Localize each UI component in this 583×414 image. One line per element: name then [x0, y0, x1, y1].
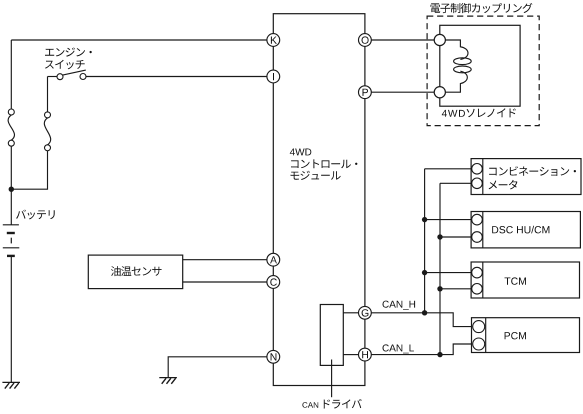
terminal G	[359, 306, 372, 319]
fuse F2	[45, 112, 51, 118]
wire terminal P to coupling	[365, 91, 440, 93]
junction TCM CAN_L	[437, 286, 442, 291]
coupling terminal lower	[434, 87, 445, 98]
engine switch SW1	[48, 76, 58, 78]
wire CAN_L from H to PCM	[365, 344, 472, 355]
wire switch to terminal I	[86, 76, 273, 78]
label CAN_L	[383, 344, 414, 353]
wire sensor to terminal A	[183, 259, 274, 261]
CAN driver box	[320, 305, 343, 366]
wire CAN_H from G to PCM	[365, 313, 472, 327]
PCM terminal upper	[473, 321, 485, 333]
CAN_H bus	[424, 169, 426, 313]
wire CAN driver to H	[343, 354, 358, 356]
ground battery	[2, 381, 20, 383]
oil temperature sensor box	[88, 255, 182, 289]
wire bus to meter upper	[425, 168, 472, 170]
terminal P	[359, 86, 372, 99]
meter terminal upper	[472, 164, 483, 175]
wire battery feed to terminal K	[11, 39, 273, 41]
electronically controlled coupling dashed box	[427, 16, 539, 126]
TCM box	[471, 262, 579, 298]
DSC terminal lower	[472, 232, 483, 243]
junction TCM CAN_H	[422, 270, 427, 275]
wire terminal O to coupling	[365, 39, 440, 41]
label electronic control coupling	[431, 3, 533, 13]
wire battery positive riser	[10, 40, 12, 109]
label battery	[16, 210, 55, 220]
label PCM	[505, 332, 526, 339]
PCM box	[472, 318, 580, 353]
4WD solenoid box	[440, 25, 520, 106]
terminal O	[359, 34, 372, 47]
wire terminal N to ground	[168, 357, 273, 378]
label TCM	[505, 277, 527, 284]
DSC terminal upper	[472, 214, 483, 225]
TCM terminal lower	[472, 284, 483, 295]
label 4WD control module	[290, 149, 312, 156]
solenoid coil L1	[445, 40, 468, 92]
DSC HU/CM box	[471, 212, 580, 248]
CAN driver leader line	[331, 360, 333, 398]
label oil temp sensor	[111, 266, 162, 276]
wire CAN driver to G	[343, 312, 358, 314]
wire bus to TCM lower	[440, 288, 472, 290]
terminal N	[267, 350, 280, 363]
ground module	[159, 377, 177, 379]
wire engine switch drop	[47, 77, 49, 113]
junction CAN_L PCM branch	[437, 352, 442, 357]
junction CAN_H PCM branch	[422, 310, 427, 315]
label combination meter	[489, 166, 576, 176]
CAN_L bus	[439, 183, 441, 354]
label CAN driver	[302, 402, 318, 408]
wire bus to TCM upper	[425, 272, 472, 274]
wire bus to meter lower	[440, 182, 472, 184]
4WD control module box U1	[273, 14, 365, 386]
label engine switch	[45, 48, 92, 57]
fuse F1	[8, 109, 14, 115]
PCM terminal lower	[473, 338, 485, 350]
wire bus to DSC upper	[425, 219, 472, 221]
junction battery node	[9, 187, 14, 192]
wire fuse F1 to battery node	[10, 146, 12, 225]
terminal C	[267, 276, 280, 289]
terminal I	[267, 70, 280, 83]
combination meter box	[471, 159, 581, 195]
terminal H	[359, 348, 372, 361]
label CAN_H	[383, 301, 416, 310]
wire sensor to terminal C	[183, 281, 274, 283]
battery BT1	[3, 224, 19, 226]
junction DSC CAN_H	[422, 217, 427, 222]
terminal A	[267, 253, 280, 266]
junction DSC CAN_L	[437, 234, 442, 239]
terminal K	[267, 34, 280, 47]
wire battery to ground	[10, 257, 12, 382]
wire fuse F2 to battery node	[11, 151, 47, 190]
wire bus to DSC lower	[440, 236, 472, 238]
label DSC HU/CM	[492, 226, 549, 234]
coupling terminal upper	[434, 34, 445, 45]
TCM terminal upper	[472, 267, 483, 278]
label 4WD solenoid	[442, 110, 465, 117]
meter terminal lower	[472, 178, 483, 189]
